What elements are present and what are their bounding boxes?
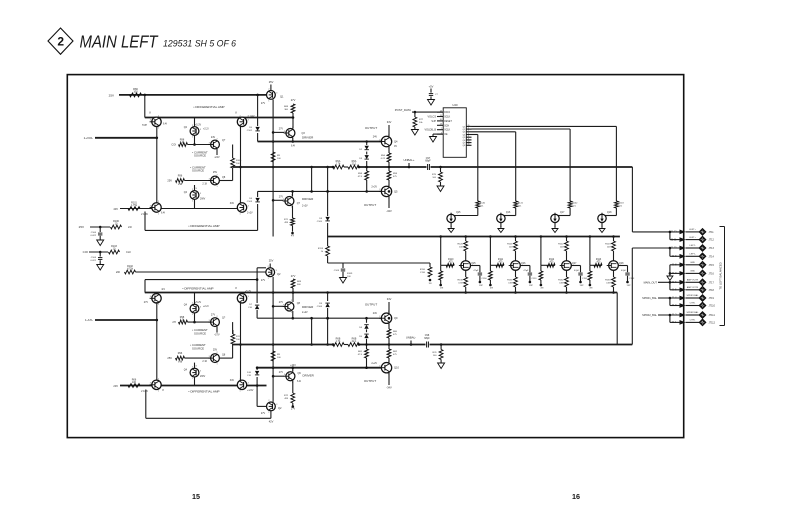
wires IC outputs to bias columns [472, 126, 617, 201]
svg-text:1: 1 [268, 101, 269, 103]
transistor Q3 driver upper [279, 127, 314, 141]
resistor R bias upper driver [284, 98, 296, 113]
IC U20 left pin numbers [440, 110, 442, 134]
transistor Q10 output lower-bottom [364, 361, 400, 390]
svg-text:C105: C105 [317, 221, 323, 223]
svg-text:3: 3 [150, 120, 151, 122]
svg-text:2: 2 [192, 302, 193, 304]
IC U20 right pins [463, 125, 472, 147]
svg-text:34V: 34V [230, 379, 235, 382]
svg-text:1: 1 [192, 137, 193, 139]
svg-text:47pF: 47pF [473, 270, 479, 272]
wire POST_DATA [412, 111, 443, 114]
svg-text:R143: R143 [618, 203, 624, 205]
svg-text:1-A7L: 1-A7L [85, 318, 93, 322]
svg-text:JT14: JT14 [709, 255, 715, 258]
svg-text:19P: 19P [529, 285, 533, 287]
label 1A7L input [85, 318, 93, 322]
svg-text:2 1/4V: 2 1/4V [248, 115, 255, 118]
wire bottom return vertical x=145.8 [145, 390, 147, 419]
svg-text:Q9: Q9 [394, 316, 398, 320]
resistor R6D [348, 338, 360, 347]
resistor R66 [130, 87, 142, 97]
svg-text:1: 1 [158, 213, 159, 215]
transistor Q1 vas top [261, 80, 284, 105]
svg-text:OUTPUT: OUTPUT [364, 203, 377, 207]
connector pin J1-3 / JT110 [672, 302, 716, 308]
capacitor C97b with +5V and ground [428, 85, 439, 106]
wire Q9 emitter resistor [387, 323, 398, 344]
wire bus3 to bus4 link x=617.2 [616, 293, 618, 345]
svg-text:R133: R133 [605, 280, 611, 282]
transistor Q32 lower diff right [235, 287, 251, 306]
svg-text:22.1: 22.1 [352, 340, 357, 343]
svg-text:1: 1 [192, 314, 193, 316]
wire driver3 base [273, 305, 283, 307]
wire lower diff rail y=208.5 [145, 208, 241, 210]
svg-text:1: 1 [192, 201, 193, 203]
svg-text:2+2V: 2+2V [302, 205, 308, 208]
svg-text:AMP VCTR: AMP VCTR [687, 286, 699, 289]
svg-text:JT17: JT17 [709, 281, 715, 284]
wire 25V row lower [185, 357, 233, 359]
svg-text:DRIVER: DRIVER [302, 136, 314, 140]
svg-text:2: 2 [388, 184, 389, 186]
wire 25V row [185, 180, 233, 182]
svg-text:C109: C109 [334, 270, 340, 272]
wire bias to driver lower [292, 288, 295, 302]
wire Q41 connections [193, 293, 196, 324]
diode D5 with vertical [247, 95, 260, 142]
svg-text:+1/4V: +1/4V [247, 389, 254, 392]
svg-text:J1-10: J1-10 [671, 247, 678, 250]
wire bottom return y=418.3 [146, 417, 271, 419]
svg-text:JT12: JT12 [709, 239, 715, 242]
svg-text:6.4I: 6.4I [291, 145, 295, 148]
resistor R100 [231, 158, 242, 168]
ground below OE [430, 134, 444, 142]
svg-text:25V: 25V [167, 356, 172, 360]
svg-text:15: 15 [192, 492, 200, 501]
svg-text:2: 2 [158, 292, 159, 294]
svg-text:27V: 27V [291, 98, 296, 102]
svg-text:16: 16 [467, 144, 469, 146]
resistor R6C [332, 338, 344, 347]
label SPKR2_BAL [642, 313, 657, 317]
svg-text:MAIN_OUT: MAIN_OUT [644, 280, 658, 284]
transistor Q22 current source [208, 136, 225, 152]
svg-text:1.74: 1.74 [336, 163, 341, 166]
resistor R197 [176, 352, 185, 364]
wire SPKR1 rows [658, 297, 681, 306]
svg-text:R130: R130 [457, 280, 463, 282]
resistor R113 gate network [588, 235, 602, 289]
wire Q2b collector link [257, 405, 266, 407]
label SJP [431, 120, 436, 123]
svg-text:R113: R113 [236, 336, 242, 338]
svg-text:100: 100 [133, 90, 138, 94]
svg-text:6.4I: 6.4I [297, 380, 301, 383]
svg-text:R109: R109 [347, 273, 353, 275]
connector pin J1-5 / JT18 [672, 286, 715, 293]
label differential amp upper bottom [188, 224, 219, 228]
svg-text:47pF: 47pF [574, 270, 580, 272]
page number 16 [572, 492, 580, 501]
svg-text:25V: 25V [79, 225, 84, 229]
wire lower diff rail y=292.5 marker [256, 278, 259, 281]
wire driver3 emitter [292, 311, 295, 320]
svg-text:25V: 25V [269, 259, 274, 263]
svg-text:Q10: Q10 [394, 366, 399, 370]
svg-text:11: 11 [440, 115, 442, 117]
svg-text:1: 1 [158, 304, 159, 306]
svg-text:13: 13 [440, 124, 442, 126]
svg-text:1.2k: 1.2k [180, 319, 185, 322]
svg-text:OUTPUT: OUTPUT [364, 379, 377, 383]
svg-text:POST_DATA: POST_DATA [395, 108, 411, 112]
svg-text:SCH: SCH [444, 125, 449, 127]
svg-text:22.1: 22.1 [352, 163, 357, 166]
svg-text:1: 1 [291, 312, 292, 314]
svg-text:2: 2 [192, 125, 193, 127]
diode pair x=366.5 lower [359, 318, 368, 344]
connector pin J1-6 / JT17 [672, 279, 715, 286]
svg-text:J1-12: J1-12 [671, 231, 678, 234]
title sheet number 129531 SH 5 OF 6 [163, 39, 236, 49]
transistor Q18 current sink with resistor and ground [598, 201, 625, 233]
svg-text:1.74: 1.74 [336, 340, 341, 343]
label differential amp bottom [188, 390, 219, 394]
svg-text:2: 2 [216, 138, 217, 140]
connector pin J1-7 / JT16 [672, 270, 715, 276]
resistor R103b [109, 245, 131, 254]
svg-text:3: 3 [379, 189, 380, 191]
label 25V lower [79, 225, 84, 229]
svg-text:3: 3 [209, 178, 210, 180]
svg-text:49I: 49I [490, 288, 493, 290]
svg-text:4.75k: 4.75k [127, 268, 134, 271]
wire Q1 emitter vertical x=273.1 [272, 100, 275, 237]
resistor R97 [176, 175, 185, 187]
wire driver4 emitter up [290, 364, 296, 372]
svg-text:27V: 27V [279, 301, 284, 304]
wire base vertical x=156.8 [156, 127, 159, 203]
svg-text:R122: R122 [558, 244, 564, 246]
svg-text:LEFT+: LEFT+ [689, 229, 696, 231]
svg-text:SPKR1 BAL: SPKR1 BAL [687, 294, 700, 297]
resistor R113b below bus2 [318, 237, 330, 264]
svg-text:27V: 27V [261, 412, 266, 415]
svg-text:49I: 49I [440, 288, 443, 290]
resistor network x=311.6 [310, 166, 313, 192]
svg-text:25V: 25V [213, 171, 218, 174]
label differential amp lower [182, 286, 213, 290]
label 25V supply left [109, 94, 114, 98]
svg-text:SOURCE: SOURCE [192, 169, 204, 173]
svg-text:•24V: •24V [214, 156, 219, 159]
svg-text:2: 2 [239, 201, 240, 203]
svg-text:C150: C150 [481, 278, 487, 280]
svg-text:GND: GND [690, 271, 695, 273]
svg-text:CTRL: CTRL [690, 320, 696, 322]
svg-text:0.022: 0.022 [91, 260, 97, 262]
svg-text:2+2V: 2+2V [302, 311, 308, 314]
wire connector rows GND [667, 265, 681, 281]
wire vertical x=240.5 between diff transistors [239, 127, 242, 203]
svg-text:CHI: CHI [126, 250, 131, 254]
svg-text:JT110: JT110 [709, 305, 716, 308]
svg-text:6.4I: 6.4I [163, 123, 167, 126]
label current source lower [190, 166, 206, 173]
svg-text:10: 10 [440, 119, 442, 121]
svg-text:R121: R121 [507, 244, 513, 246]
svg-text:22I: 22I [116, 270, 120, 274]
transistor Q12 upper diff right [235, 112, 255, 130]
svg-text:1: 1 [268, 412, 269, 414]
wire internal bottom y=230.4 [145, 229, 258, 231]
diode chain x=327.6 lower [317, 293, 330, 346]
svg-text:SCLK: SCLK [444, 117, 450, 119]
transistor Q23 current source [202, 171, 226, 188]
wire main bus y=344.5 [233, 343, 632, 346]
svg-text:2WV: 2WV [200, 198, 206, 201]
svg-text:R113: R113 [318, 248, 324, 250]
connector pin J1-11 / JT12 [671, 237, 715, 243]
wire Q42 emitter [214, 327, 219, 337]
resistor R102 [125, 265, 136, 274]
svg-text:1: 1 [239, 213, 240, 215]
label current source lower-upper [192, 328, 208, 335]
wire 43V to Q [120, 208, 152, 210]
capacitor C151 compensation [520, 266, 537, 288]
title MAIN LEFT [80, 32, 159, 52]
transistor Q41 current source [184, 301, 209, 316]
node cap C106 with ground [91, 226, 104, 246]
svg-text:3: 3 [248, 296, 249, 298]
svg-text:SOURCE: SOURCE [194, 154, 206, 158]
IC U20 left pins [437, 111, 452, 136]
page number 15 [192, 492, 200, 501]
svg-text:Q4: Q4 [394, 140, 398, 144]
svg-text:3: 3 [150, 296, 151, 298]
transistor Q7 driver lower [279, 195, 314, 209]
sheet reference diamond with number 2 [48, 28, 73, 54]
resistor R112 gate network [539, 235, 555, 289]
svg-text:• DIFFERENTIAL AMP: • DIFFERENTIAL AMP [188, 224, 219, 228]
transistor Q16 current sink with resistor and ground [497, 201, 524, 233]
wire upper diff rail y=117.5 [145, 117, 293, 119]
diode D7 with vertical [248, 268, 266, 318]
svg-text:C102: C102 [247, 130, 253, 132]
svg-text:Q2: Q2 [277, 272, 281, 276]
svg-text:2: 2 [291, 300, 292, 302]
svg-text:3: 3 [248, 120, 249, 122]
transistor Q42 current source [208, 314, 225, 330]
label COI [83, 250, 89, 254]
wire vertical x=240.5 lower [239, 302, 242, 380]
svg-text:2: 2 [239, 292, 240, 294]
svg-text:3: 3 [379, 316, 380, 318]
wire bus1 to connector x=632.4 [632, 167, 680, 232]
transistor Q9 output lower-top [365, 297, 398, 327]
label UNBAL+ [404, 158, 415, 167]
svg-text:GND: GND [690, 262, 695, 264]
svg-text:2: 2 [216, 174, 217, 176]
svg-text:C151: C151 [531, 278, 537, 280]
wire bus4 to connector x=632.3 [632, 248, 680, 345]
svg-text:3: 3 [200, 193, 201, 195]
svg-text:25V: 25V [167, 179, 172, 183]
resistor x=366.5 below bus4 [358, 345, 369, 368]
svg-text:LEFT+: LEFT+ [689, 237, 696, 239]
svg-text:2: 2 [268, 266, 269, 268]
svg-text:3: 3 [209, 142, 210, 144]
svg-text:34V: 34V [387, 120, 392, 124]
svg-text:1: 1 [158, 391, 159, 393]
svg-text:2: 2 [158, 115, 159, 117]
resistor R6A first [332, 160, 344, 169]
svg-text:23V: 23V [113, 384, 118, 388]
wire COI row [89, 251, 108, 253]
wire bias resistor to rail [292, 113, 295, 129]
svg-text:2WV: 2WV [200, 375, 206, 378]
svg-text:27V: 27V [261, 279, 266, 282]
label 1+VOL input [84, 136, 94, 140]
svg-text:25V: 25V [213, 349, 218, 352]
svg-text:JT11: JT11 [709, 231, 715, 234]
svg-text:LEFT-: LEFT- [690, 245, 696, 247]
resistor link x=311.6 lower [310, 318, 313, 346]
node cap C104 with ground [91, 251, 104, 270]
svg-text:27V: 27V [211, 314, 216, 317]
svg-text:VOLDB_B: VOLDB_B [424, 129, 436, 132]
svg-text:27V: 27V [261, 102, 266, 105]
resistor R111 gate network [489, 235, 505, 289]
resistor R110 gate network [439, 235, 454, 289]
svg-text:27V: 27V [291, 274, 296, 278]
wire Q22 emitter [214, 149, 219, 159]
svg-text:V98: V98 [178, 361, 183, 364]
wire 27I row [188, 321, 211, 323]
svg-text:JT19: JT19 [709, 297, 715, 300]
svg-text:27V: 27V [279, 196, 284, 199]
svg-text:JT112: JT112 [709, 321, 716, 324]
svg-text:2: 2 [291, 195, 292, 197]
svg-text:42V: 42V [269, 420, 274, 424]
svg-text:3: 3 [209, 320, 210, 322]
svg-text:JT13: JT13 [709, 247, 715, 250]
label 43V lower-left [113, 207, 118, 211]
capacitor C150 compensation [471, 266, 488, 288]
svg-text:19P: 19P [479, 285, 483, 287]
svg-text:Q16: Q16 [506, 212, 511, 214]
svg-text:3: 3 [276, 270, 277, 272]
svg-text:1: 1 [216, 364, 217, 366]
svg-text:R142: R142 [572, 203, 578, 205]
svg-text:2: 2 [239, 378, 240, 380]
wire connector row pair 1-2 [669, 231, 681, 240]
svg-text:1.75k: 1.75k [131, 204, 138, 207]
transistor Q4 output top [365, 120, 398, 150]
svg-text:R96: R96 [178, 352, 183, 355]
svg-text:1: 1 [239, 391, 240, 393]
resistor R27 on x=273.1 [271, 152, 281, 162]
transistor Q15 current sink with resistor and ground [447, 201, 486, 233]
svg-text:2: 2 [57, 34, 64, 48]
svg-text:2 1II: 2 1II [202, 360, 207, 363]
svg-text:XCLK: XCLK [444, 130, 450, 132]
connector pin J1-2 / JT111 [672, 311, 716, 318]
svg-text:24V: 24V [373, 312, 378, 315]
label POST_DATA [395, 108, 411, 112]
vertical resistor R113 left [231, 330, 242, 344]
svg-text:C104: C104 [91, 257, 97, 259]
svg-text:SPKR2 BAL: SPKR2 BAL [687, 311, 700, 314]
label differential amp upper [193, 105, 224, 109]
transistor Q26 output switch column [507, 235, 526, 294]
svg-text:VOLCS: VOLCS [428, 116, 437, 119]
svg-text:47pF: 47pF [523, 270, 529, 272]
svg-text:2: 2 [216, 316, 217, 318]
diode pair x=366.7 upper [359, 142, 369, 168]
wire driver base [273, 131, 284, 133]
svg-text:•27V: •27V [214, 334, 219, 337]
svg-text:34V: 34V [230, 202, 235, 205]
svg-text:24I: 24I [128, 225, 132, 229]
resistor below driver4 [284, 381, 296, 411]
svg-text:9: 9 [468, 138, 469, 140]
wire cs link x=232.6 upper [232, 145, 234, 159]
svg-text:3: 3 [200, 306, 201, 308]
wire driver2 collector [292, 191, 294, 196]
svg-text:+2.2I: +2.2I [203, 128, 209, 131]
svg-text:6: 6 [468, 136, 469, 138]
wire 22I to Q2 base [136, 271, 266, 273]
svg-text:R131: R131 [507, 280, 513, 282]
svg-text:Q17: Q17 [560, 212, 565, 214]
svg-text:Q15: Q15 [456, 212, 461, 214]
svg-text:68pF: 68pF [424, 337, 430, 340]
label SPKR1_BAL [642, 296, 657, 300]
svg-text:UNBAL-: UNBAL- [406, 335, 416, 339]
svg-text:3: 3 [379, 139, 380, 141]
transistor Q11 upper diff left [142, 112, 168, 130]
wire MAIN_OUT rows [658, 281, 681, 290]
svg-text:R110: R110 [420, 269, 426, 271]
svg-text:Q28: Q28 [619, 263, 624, 265]
svg-text:LEFT-: LEFT- [690, 254, 696, 256]
svg-text:2+2V: 2+2V [371, 186, 377, 189]
wire bottom rail [120, 385, 267, 387]
resistor R77 pulldown [411, 112, 423, 135]
resistor R75 with ground [432, 167, 444, 192]
resistor x=389 to Q10 base [387, 345, 398, 363]
wire 25V row mid [90, 226, 110, 228]
svg-text:JT18: JT18 [709, 289, 715, 292]
svg-text:AMP VCTR: AMP VCTR [687, 279, 699, 282]
svg-text:27I: 27I [172, 320, 176, 324]
svg-text:C110: C110 [420, 272, 426, 274]
svg-text:1: 1 [468, 128, 469, 130]
label 23V bottom rail [113, 384, 118, 388]
svg-text:JT15: JT15 [709, 264, 715, 267]
transistor Q33 bottom diff left [141, 378, 164, 393]
svg-text:SOURCE: SOURCE [194, 331, 206, 335]
resistor R99 [179, 139, 188, 147]
transistor Q28 output switch column [605, 235, 624, 294]
wire driver4 base [273, 375, 284, 377]
svg-text:Q25: Q25 [471, 263, 476, 265]
